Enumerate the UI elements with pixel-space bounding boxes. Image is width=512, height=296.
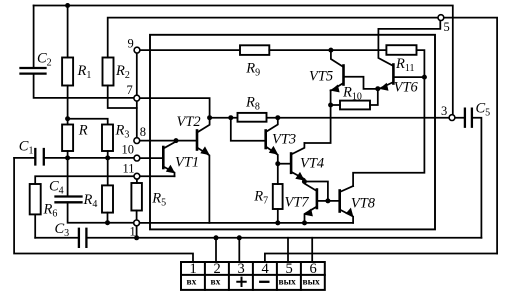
svg-text:VT1: VT1 — [175, 155, 199, 171]
svg-text:R11: R11 — [395, 56, 415, 74]
wire outer left down to terminal 1 — [14, 158, 193, 262]
VT6 emitter arrow — [379, 83, 388, 91]
VT8 emitter arrow — [346, 208, 354, 217]
VT4 emitter arrow — [295, 172, 304, 181]
junction R4 bottom on pin1 wire — [105, 220, 110, 225]
junction R7 bottom on common rail — [275, 220, 280, 225]
svg-text:R1: R1 — [77, 63, 92, 81]
wire pin9 to R9 — [140, 49, 240, 51]
svg-text:VT5: VT5 — [309, 69, 333, 85]
wire VT4 collector to VT5 emitter line — [304, 90, 330, 143]
svg-text:VT3: VT3 — [272, 132, 296, 148]
resistor R7 — [273, 164, 283, 223]
wire pin7 to VT2 collector node — [140, 98, 210, 118]
transistor VT4 — [291, 143, 304, 182]
svg-text:вых: вых — [279, 278, 297, 288]
wire VT2 collector node to pin3 — [210, 117, 450, 119]
resistor R1 — [62, 6, 73, 119]
VT5 emitter arrow — [330, 85, 339, 93]
svg-text:R8: R8 — [245, 94, 260, 112]
capacitor C5 — [455, 109, 482, 238]
svg-text:VT7: VT7 — [285, 194, 310, 210]
wire VT6 base node down to VT8 collector — [353, 77, 424, 186]
resistor R3 — [102, 125, 113, 186]
junction VT7 emitter on common rail — [302, 220, 307, 225]
wire pin1 down to C3 bus — [136, 226, 138, 238]
wire top rail H1 — [34, 6, 453, 115]
wire pin11 left to R6 — [35, 176, 134, 184]
svg-text:5: 5 — [444, 20, 450, 34]
VT3 emitter arrow — [269, 146, 278, 155]
svg-text:7: 7 — [127, 83, 133, 97]
junction R3 bottom / R4 top on pin10 wire — [105, 155, 110, 160]
resistor R — [62, 119, 73, 197]
VT2 emitter arrow — [200, 146, 209, 155]
pin 8 terminal — [134, 138, 140, 144]
capacitor C2 — [21, 6, 134, 98]
svg-text:VT8: VT8 — [351, 195, 376, 211]
svg-text:C4: C4 — [49, 179, 64, 197]
svg-text:8: 8 — [140, 125, 146, 139]
svg-text:10: 10 — [122, 143, 135, 157]
junction VT7 base / VT8 base — [325, 198, 330, 203]
resistor R8 — [238, 113, 267, 122]
svg-text:C5: C5 — [476, 101, 491, 119]
resistor R9 — [240, 45, 386, 55]
svg-text:4: 4 — [262, 261, 270, 277]
junction terminal2 riser on C3 bus — [214, 235, 219, 240]
terminal minus sign — [259, 281, 269, 283]
svg-text:5: 5 — [286, 261, 293, 277]
resistor R11 — [386, 45, 424, 77]
junction VT1 collector on pin8 wire — [174, 138, 179, 143]
transistor VT8 — [340, 186, 353, 223]
junction R1 bottom / R top / R3 feed — [65, 116, 70, 121]
wire pin7-pin8 link — [136, 101, 138, 138]
junction R11 right / VT6 base / VT8 collector — [422, 75, 427, 80]
svg-text:2: 2 — [214, 261, 221, 277]
transistor VT3 — [266, 118, 278, 164]
svg-text:9: 9 — [128, 37, 134, 51]
svg-text:1: 1 — [130, 225, 136, 239]
wire pin8 to VT2 base — [140, 140, 197, 142]
svg-text:R4: R4 — [83, 192, 98, 210]
svg-text:VT4: VT4 — [300, 155, 324, 171]
svg-text:R6: R6 — [43, 202, 58, 220]
pin circles — [134, 15, 455, 226]
resistor R5 — [131, 179, 142, 220]
terminal riser 2 — [215, 238, 217, 262]
wire VT4 emitter node to VT7/VT8 bases — [304, 182, 339, 201]
resistor R4 — [102, 185, 113, 222]
svg-text:R5: R5 — [151, 191, 166, 209]
pin 11 terminal — [134, 173, 140, 179]
transistor VT5 — [331, 50, 378, 91]
terminal plus sign — [236, 277, 269, 287]
wire pin10 to VT1 base — [140, 157, 164, 159]
pin 10 terminal — [134, 155, 140, 161]
svg-text:C3: C3 — [55, 221, 70, 239]
pin 1 terminal — [134, 220, 140, 226]
svg-text:R7: R7 — [253, 189, 268, 207]
junction VT4 emitter / VT7 collector — [302, 179, 307, 184]
transistor VT2 — [197, 118, 210, 223]
svg-text:вых: вых — [303, 278, 321, 288]
svg-text:3: 3 — [441, 104, 447, 118]
svg-text:C1: C1 — [19, 139, 34, 157]
svg-text:C2: C2 — [37, 51, 52, 69]
pin 3 terminal — [449, 115, 455, 121]
node wire R1-R3 — [68, 119, 108, 125]
junction R8 left / VT3 base tap — [228, 115, 233, 120]
wire pin5 right edge down to bottom — [444, 18, 497, 254]
svg-text:11: 11 — [123, 161, 135, 175]
capacitor C1 — [14, 149, 134, 165]
pin 9 terminal — [134, 47, 140, 53]
svg-text:VT6: VT6 — [394, 79, 419, 95]
svg-text:вх: вх — [187, 278, 197, 288]
capacitor C4 — [56, 197, 134, 223]
svg-text:R9: R9 — [245, 61, 260, 79]
pin 5 terminal — [438, 15, 444, 21]
wire R8 left down to VT3 base — [231, 118, 266, 141]
terminal riser 3 — [238, 238, 240, 262]
junction pin7 wire / VT2 collector — [207, 115, 212, 120]
wire pin9-pin7 link — [136, 53, 138, 95]
wire bottom segment to terminal 4 — [265, 254, 497, 263]
junction R bottom on pin10 wire — [65, 155, 70, 160]
svg-text:вх: вх — [211, 278, 221, 288]
svg-text:6: 6 — [310, 261, 317, 277]
svg-text:R2: R2 — [115, 63, 130, 81]
resistor R6 — [30, 184, 41, 238]
junction R1 top on top rail — [65, 3, 70, 8]
capacitor C3 — [35, 229, 481, 247]
transistor VT7 — [304, 182, 328, 223]
terminal block — [181, 262, 325, 290]
junction R9 right / VT5 collector — [328, 48, 333, 53]
VT7 emitter arrow — [304, 209, 313, 217]
pin 7 terminal — [134, 95, 140, 101]
wire VT3 emitter node to VT4 base — [278, 163, 291, 165]
amplifier inner box — [150, 35, 435, 230]
resistor R2 — [103, 18, 439, 108]
junction VT3 emitter / VT4 base / R7 top — [275, 161, 280, 166]
terminal riser 6 — [311, 238, 313, 262]
wire internal common rail — [140, 222, 354, 224]
transistor VT1 — [140, 141, 176, 177]
transistor VT6 — [378, 21, 441, 90]
VT1 emitter arrow — [166, 165, 175, 174]
junction pin1 drop on C3 bus — [134, 235, 139, 240]
svg-text:R3: R3 — [115, 122, 130, 140]
svg-text:VT2: VT2 — [177, 114, 201, 130]
junction VT5 base / R10 right / VT6 emitter — [375, 86, 380, 91]
terminal riser 5 — [287, 238, 289, 262]
resistor R10 — [331, 89, 378, 110]
emitter arrows — [166, 83, 389, 217]
svg-text:R: R — [78, 122, 88, 138]
svg-text:1: 1 — [190, 261, 197, 277]
junction R8 right / VT3 collector — [275, 115, 280, 120]
svg-text:3: 3 — [238, 261, 245, 277]
junction R10 left on VT5 emitter line — [328, 103, 333, 108]
svg-text:R10: R10 — [342, 84, 362, 102]
junction terminal3 riser on C3 bus — [237, 235, 242, 240]
